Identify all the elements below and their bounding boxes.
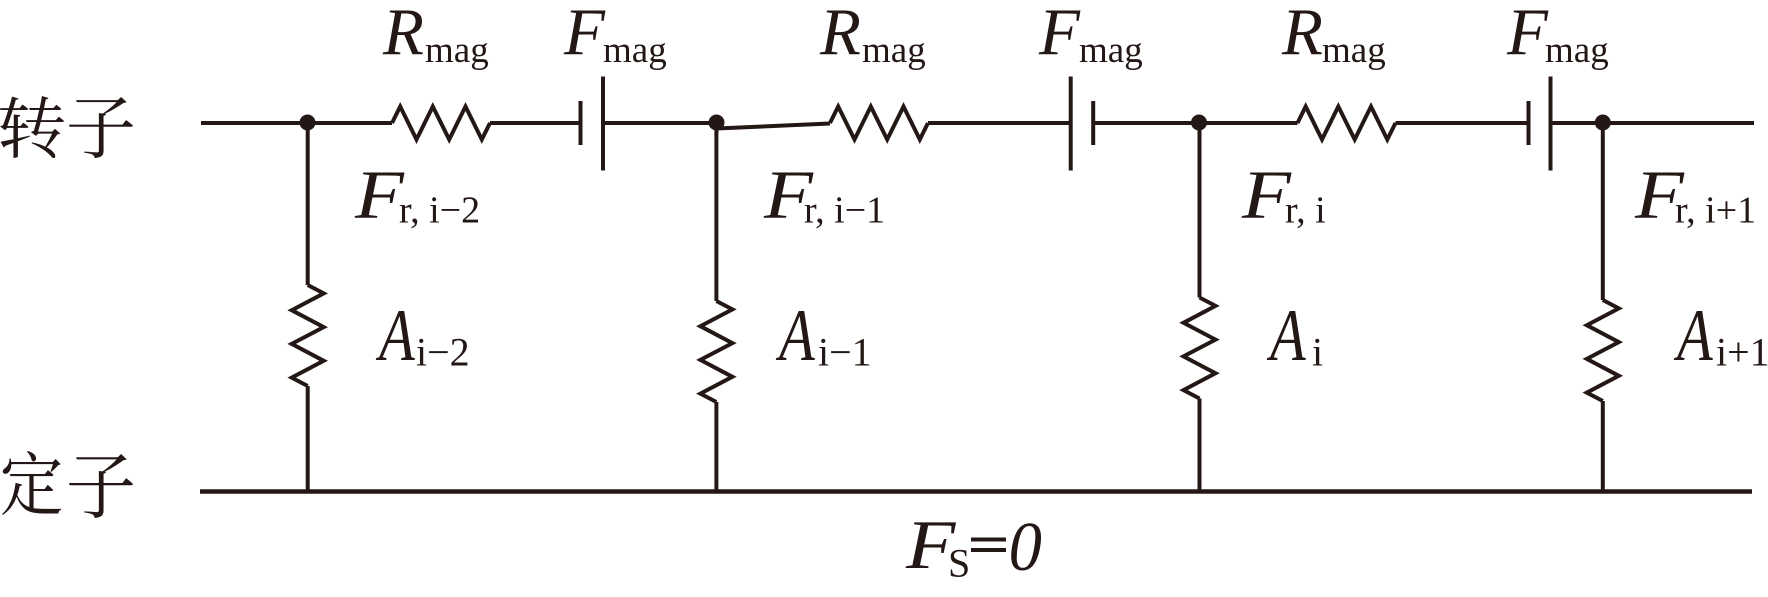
label A_i+1	[1673, 296, 1712, 377]
resistor R_mag 2	[830, 107, 928, 140]
wire branch 1 upper	[306, 123, 310, 286]
svg-text:r, i−2: r, i−2	[399, 190, 480, 232]
svg-text:mag: mag	[603, 30, 667, 71]
resistor A_i+1	[1587, 300, 1619, 401]
label F_r,i+1	[1634, 157, 1685, 234]
label stator 定	[2, 451, 61, 515]
svg-text:A: A	[775, 296, 814, 377]
svg-text:i+1: i+1	[1716, 330, 1768, 375]
label F_S=0	[905, 507, 956, 584]
label F_r,i-2	[354, 157, 405, 234]
wire branch 1 lower	[306, 386, 310, 492]
wire between R_mag 1 and F_mag 1	[490, 121, 581, 125]
wire slanted node B to R_mag 2	[717, 124, 831, 129]
svg-text:mag: mag	[1079, 30, 1143, 71]
wire branch 4 upper	[1601, 123, 1605, 301]
wire top right segment	[1551, 121, 1755, 125]
resistor R_mag 1	[392, 107, 490, 140]
wire between F_mag 2 and R_mag 3	[1093, 121, 1297, 125]
resistor A_i-1	[700, 301, 732, 402]
label stator 子	[69, 454, 133, 518]
label A_i-2	[375, 296, 414, 377]
resistor A_i	[1184, 298, 1216, 399]
node B junction dot	[709, 115, 725, 131]
svg-text:i: i	[1312, 330, 1323, 375]
resistor A_i-2	[292, 285, 324, 386]
battery F_mag 3 short plate	[1527, 101, 1531, 145]
svg-text:F: F	[1506, 0, 1549, 69]
label rotor 子	[69, 97, 133, 158]
label F_r,i-1	[763, 157, 814, 234]
svg-text:mag: mag	[862, 30, 926, 71]
battery F_mag 3 long plate	[1549, 77, 1553, 171]
wire branch 4 lower	[1601, 401, 1605, 492]
svg-text:r, i−1: r, i−1	[804, 190, 885, 232]
svg-text:A: A	[375, 296, 414, 377]
svg-text:R: R	[819, 0, 861, 69]
svg-text:F: F	[354, 157, 405, 234]
svg-text:r, i: r, i	[1285, 190, 1326, 232]
svg-text:F: F	[563, 0, 606, 69]
label A_i	[1266, 296, 1305, 377]
battery F_mag 1 short plate	[579, 101, 583, 145]
svg-text:A: A	[1673, 296, 1712, 377]
svg-text:R: R	[1281, 0, 1323, 69]
resistor R_mag 3	[1298, 107, 1396, 140]
svg-text:i−1: i−1	[818, 330, 872, 375]
svg-text:mag: mag	[1322, 30, 1386, 71]
wire branch 2 lower	[714, 402, 718, 492]
svg-text:i−2: i−2	[416, 330, 470, 375]
svg-text:F: F	[1038, 0, 1081, 69]
wire rotor top segment left	[201, 121, 392, 125]
wire stator bottom line	[200, 489, 1752, 494]
wire between F_mag 1 and node B	[603, 121, 717, 125]
svg-text:r, i+1: r, i+1	[1675, 190, 1756, 232]
battery F_mag 1 long plate	[601, 77, 605, 171]
svg-text:mag: mag	[425, 30, 489, 71]
label A_i-1	[775, 296, 814, 377]
label rotor 转	[0, 96, 64, 158]
svg-text:A: A	[1266, 296, 1305, 377]
label F_r,i	[1241, 157, 1292, 234]
svg-text:R: R	[382, 0, 424, 69]
wire between R_mag 2 and F_mag 2	[928, 121, 1071, 125]
node A junction dot	[300, 115, 316, 131]
wire branch 3 lower	[1198, 399, 1202, 492]
wire branch 3 upper	[1198, 123, 1202, 298]
svg-text:0: 0	[1009, 507, 1042, 585]
battery F_mag 2 short plate	[1091, 101, 1095, 145]
svg-text:S: S	[948, 541, 970, 586]
node D junction dot	[1595, 115, 1611, 131]
battery F_mag 2 long plate	[1069, 77, 1073, 171]
wire branch 2 upper	[714, 123, 718, 302]
node C junction dot	[1191, 115, 1207, 131]
svg-text:mag: mag	[1545, 30, 1609, 71]
wire between R_mag 3 and F_mag 3	[1396, 121, 1529, 125]
